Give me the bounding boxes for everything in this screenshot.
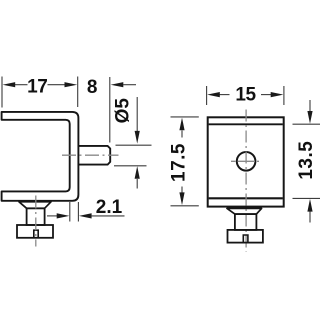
svg-text:2.1: 2.1 [96,197,123,218]
pin centerline [62,154,119,156]
svg-text:17.5: 17.5 [169,143,190,182]
dim 17.5: dimension line + arrows [181,131,183,138]
svg-text:17: 17 [27,76,47,97]
dim 15: extension lines [206,86,208,105]
svg-text:Ø5: Ø5 [113,98,134,124]
dim 15: dimension line + arrows [219,94,230,96]
dim 13.5: outside arrow top (pointing down) [309,100,311,112]
screw neck (left view) [27,208,45,225]
dim 17: extension line left [1,77,3,108]
screw slot (right view) [243,235,248,243]
bottom flange inner line [209,197,283,199]
svg-text:13.5: 13.5 [296,141,317,180]
screw neck (right view) [235,214,257,230]
vertical centerline [245,110,247,252]
screw boss trapezoid (left view) [19,202,51,209]
hole circle [237,152,256,171]
dim Ø5: lower arrow pointing up [136,179,138,189]
dim Ø5: upper arrow pointing down [136,97,138,131]
screw head (left view) [17,225,53,238]
dim 8: outside arrow + stem [111,82,124,87]
dim 13.5: extension lines [293,123,320,125]
screw centerline (left view) [35,196,37,247]
dim 17: dimension line + arrows [15,84,28,86]
top flange inner line [209,123,283,125]
clamp body outline (C-profile opening left) [2,112,79,201]
dim 8: extension line right (from pin end) [109,77,111,143]
body rectangle [208,117,284,206]
pin (stud) on right wall [79,146,110,165]
dim 2.1: right arrow pointing left + line under text [79,213,92,218]
hole horizontal centerline [231,160,259,162]
dim 13.5: outside arrow bottom (pointing up) [309,212,311,223]
dim 2.1: left arrow pointing right [47,215,58,217]
dim 2.1: extension lines [69,202,71,222]
dim 17.5: extension lines [171,116,199,118]
svg-text:15: 15 [235,85,256,106]
dim 17: extension line right [77,77,79,108]
svg-text:8: 8 [87,77,98,98]
dim Ø5: extension lines from pin [116,144,152,146]
screw boss trapezoid (right view) [227,208,262,214]
screw slot (left view) [34,230,38,238]
screw head (right view) [228,230,263,243]
